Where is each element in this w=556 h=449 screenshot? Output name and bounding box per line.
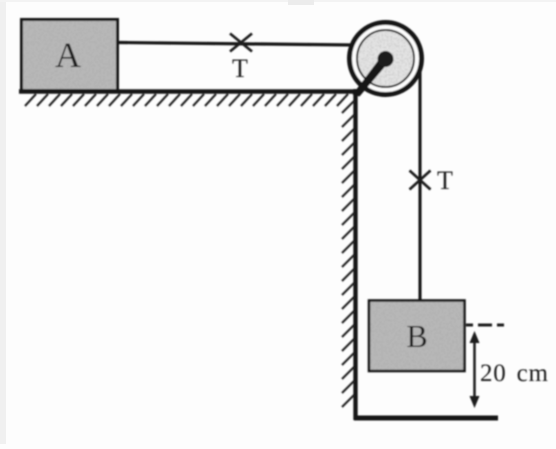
pulley inner disc [357, 30, 414, 87]
wall (vertical) [353, 89, 357, 420]
svg-text:B: B [406, 318, 427, 354]
table hatching [25, 94, 348, 106]
svg-text:T: T [232, 54, 248, 83]
table surface [19, 89, 358, 94]
block B fill [369, 301, 465, 372]
dashed reference line [466, 324, 509, 327]
block B border [369, 301, 465, 372]
tension cross X (vertical string) [410, 171, 431, 190]
pulley outer wheel [350, 23, 422, 95]
horizontal string [117, 43, 356, 46]
20 cm double arrow [470, 331, 480, 408]
left scan edge strip [0, 0, 6, 444]
tension cross X (horizontal string) [230, 34, 252, 52]
pulley axle dot [378, 51, 394, 67]
wall hatching [342, 101, 354, 407]
svg-text:T: T [437, 166, 453, 195]
pulley bracket [353, 56, 389, 97]
svg-text:20 cm: 20 cm [480, 360, 549, 387]
block A border [22, 20, 118, 91]
svg-text:A: A [55, 35, 81, 75]
floor [354, 416, 498, 421]
block A fill [22, 20, 118, 91]
vertical string [418, 58, 421, 302]
